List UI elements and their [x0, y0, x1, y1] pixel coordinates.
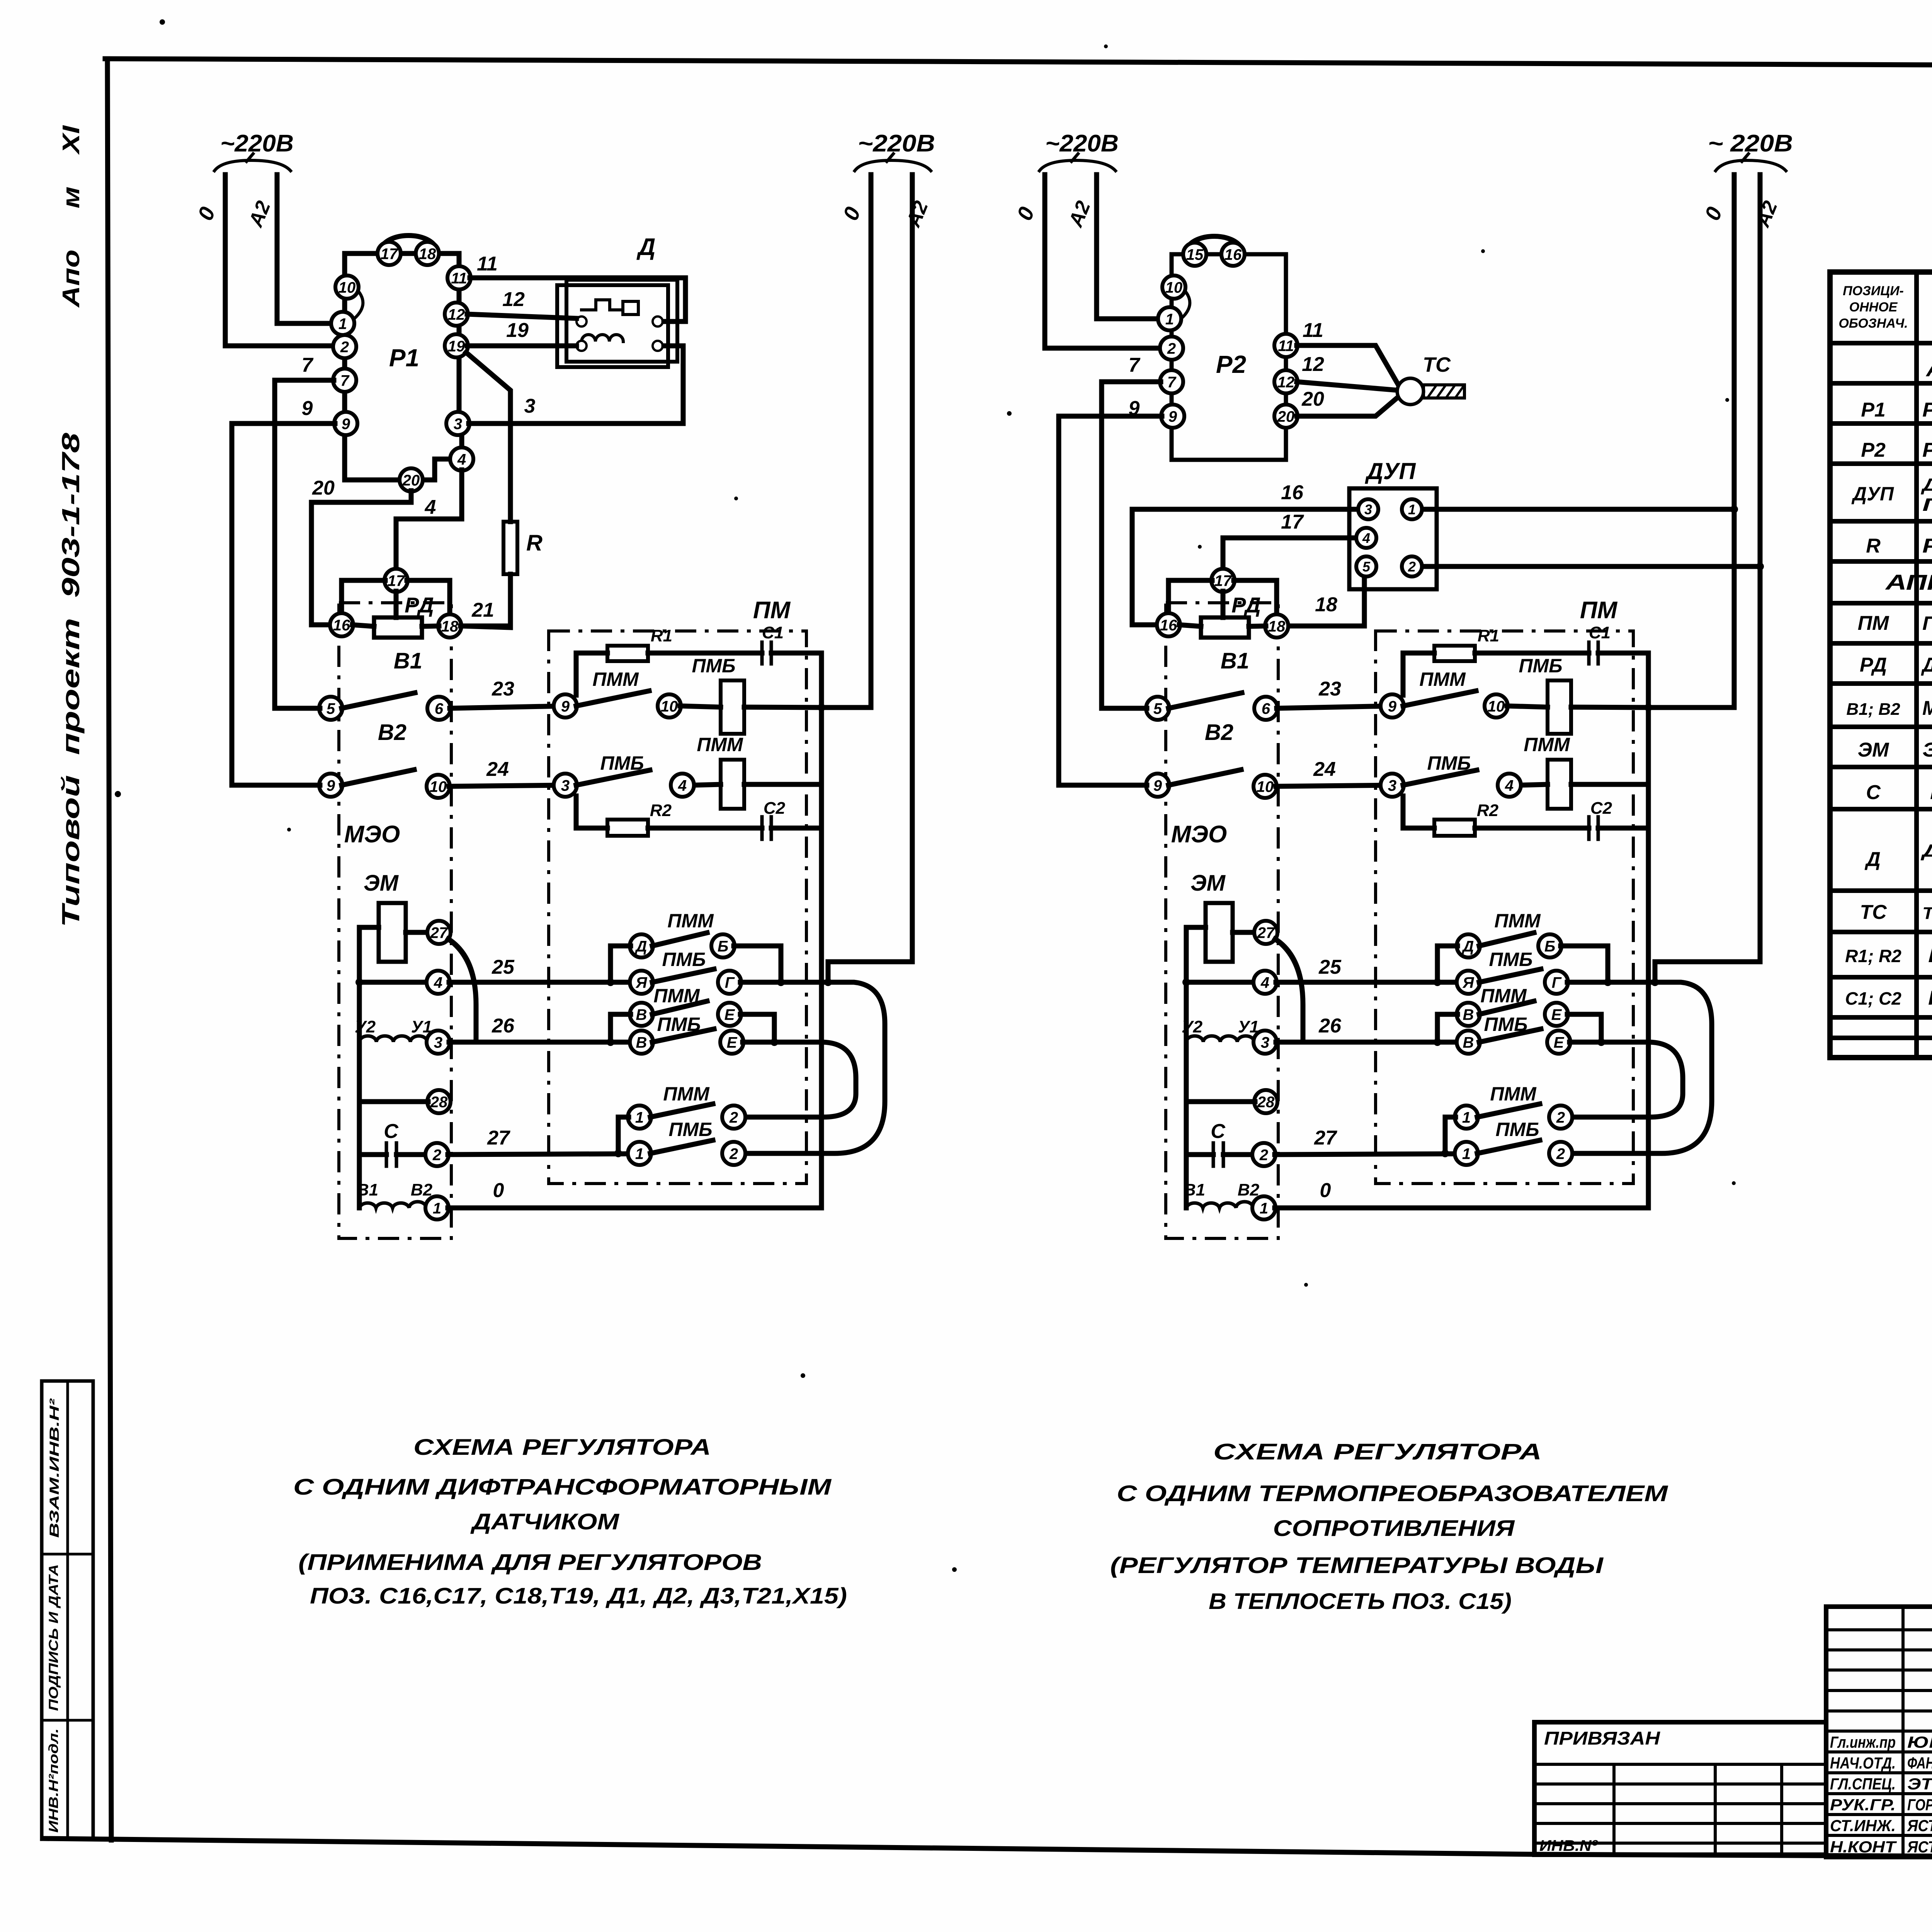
svg-text:2: 2 [1556, 1145, 1565, 1162]
svg-text:4: 4 [434, 974, 442, 991]
row R pos [1866, 535, 1881, 557]
supply label ~220V left reg2 [1045, 130, 1119, 157]
svg-text:~220В: ~220В [220, 130, 294, 157]
wire E upper drop reg2 [1567, 1014, 1601, 1042]
svg-text:Д: Д [635, 938, 647, 955]
contact 9 MEO reg2 [1146, 774, 1169, 797]
label PMB mid contact reg2 [1427, 752, 1471, 774]
svg-text:4: 4 [1505, 777, 1514, 794]
label PMM contact 1-2 reg1 [663, 1083, 710, 1105]
wire label 27 reg2 [1314, 1127, 1337, 1149]
svg-text:Е: Е [724, 1006, 735, 1023]
wire label 3 reg1 [524, 395, 536, 417]
svg-text:20: 20 [402, 472, 420, 489]
caption1 line4 [298, 1550, 762, 1575]
wire 18 reg2 [1287, 577, 1364, 626]
wire to R2 reg2 [1403, 796, 1434, 828]
svg-text:21: 21 [471, 599, 494, 621]
terminal 18 P1 [416, 242, 439, 265]
svg-text:9: 9 [1388, 698, 1397, 715]
blade PMB mid reg2 [1403, 770, 1477, 785]
blade Ya-G reg1 [652, 969, 714, 982]
svg-text:0: 0 [493, 1179, 504, 1202]
svg-text:В1; В2: В1; В2 [1846, 700, 1900, 719]
RD tap wire reg2 [1221, 591, 1226, 617]
svg-text:СХЕМА РЕГУЛЯТОРА: СХЕМА РЕГУЛЯТОРА [413, 1435, 711, 1460]
terminal 2 MEO reg2 [1252, 1143, 1276, 1166]
svg-text:Г: Г [725, 974, 735, 991]
svg-text:3: 3 [434, 1034, 442, 1051]
label B1 winding reg1 [357, 1180, 378, 1199]
wire EM to 27 reg1 [406, 930, 428, 935]
row D pos [1864, 848, 1881, 871]
sensor D terminal bottom-left [577, 341, 587, 351]
terminal 16 RD reg1 [330, 613, 353, 636]
svg-text:В1: В1 [1184, 1180, 1205, 1199]
capacitor C2 reg2 [1589, 817, 1598, 839]
svg-text:В ТЕПЛОСЕТЬ ПОЗ. С15): В ТЕПЛОСЕТЬ ПОЗ. С15) [1209, 1589, 1512, 1614]
wire label 18 reg2 [1315, 594, 1337, 616]
svg-text:В2: В2 [411, 1180, 433, 1199]
svg-text:16: 16 [333, 617, 350, 634]
label TC sensor [1423, 353, 1451, 376]
svg-text:~ 220В: ~ 220В [1708, 130, 1793, 157]
wire label 25 reg1 [492, 956, 515, 978]
svg-text:ПММ: ПММ [1494, 910, 1541, 932]
table section apparatura na shchite [1925, 357, 1932, 381]
svg-text:Р2: Р2 [1216, 350, 1246, 378]
svg-text:ТЕРМОПРЕОБРАЗОВАТЕЛЬ СОПРОТИВЛ: ТЕРМОПРЕОБРАЗОВАТЕЛЬ СОПРОТИВЛЕНИЯ [1922, 904, 1932, 923]
right bus vertical reg2 [1646, 653, 1651, 1208]
svg-text:КОНДЕНСАТОР: КОНДЕНСАТОР [1928, 987, 1932, 1009]
svg-text:9: 9 [1168, 408, 1177, 425]
svg-text:1: 1 [1462, 1109, 1471, 1126]
svg-text:3: 3 [1388, 777, 1396, 794]
riser 27 to 1 row reg1 [614, 1117, 629, 1157]
svg-text:7: 7 [1129, 354, 1141, 376]
svg-text:В1: В1 [394, 648, 422, 673]
terminal 18 RD reg1 [438, 614, 461, 638]
contact E lower reg2 [1547, 1031, 1570, 1054]
wire 10 to PMB coil reg1 [680, 706, 721, 707]
jumper arc 10-1 [353, 291, 363, 320]
svg-text:10: 10 [1488, 698, 1505, 715]
net label 0 left reg2 [1012, 203, 1039, 223]
net label 0 left reg1 [193, 203, 220, 223]
svg-text:18: 18 [419, 245, 436, 262]
svg-text:В: В [636, 1006, 647, 1023]
wire 21 reg1 [461, 624, 510, 629]
label PMM contact D-B reg1 [667, 910, 714, 932]
blade PMM upper reg1 [576, 691, 649, 706]
svg-text:23: 23 [492, 678, 514, 700]
svg-text:20: 20 [312, 477, 335, 499]
terminal 4 MEO reg1 [427, 971, 450, 994]
svg-text:В1: В1 [1221, 648, 1249, 673]
terminal 9 P2 [1161, 405, 1184, 428]
junction 0-supply bus reg2 [1645, 704, 1652, 711]
row C1C2 pos [1845, 988, 1901, 1009]
terminal 9 P1 [334, 412, 357, 435]
row P2 name regulating device P25.21 [1922, 438, 1932, 461]
row P2 pos [1861, 439, 1886, 461]
svg-text:ДУП: ДУП [1364, 458, 1416, 484]
contact E upper reg2 [1545, 1003, 1568, 1026]
svg-text:С1; С2: С1; С2 [1845, 988, 1901, 1009]
wire R2 to C2 reg1 [648, 826, 762, 831]
svg-text:Я: Я [635, 974, 647, 991]
terminal 16 RD reg2 [1157, 613, 1180, 636]
svg-text:Д: Д [1462, 938, 1474, 955]
wire label 4 reg1 [425, 496, 436, 519]
wire left bus reg2 [1184, 1042, 1189, 1208]
label R1 reg2 [1478, 626, 1499, 645]
sensor D winding symbol [582, 335, 623, 342]
label V2 reg1 [378, 720, 406, 745]
row V1V2 pos [1846, 700, 1900, 719]
right bus vertical reg1 [819, 653, 824, 1208]
wire 27 curve to 26 reg1 [448, 939, 476, 1042]
terminal 1 MEO reg2 [1252, 1196, 1276, 1219]
terminal 3 MEO reg1 [427, 1031, 450, 1054]
svg-text:С: С [384, 1120, 399, 1143]
svg-text:19: 19 [506, 319, 529, 342]
outer loop curve reg1 [745, 978, 885, 1153]
contact 9 PM reg1 [554, 694, 577, 718]
table section apparatura po mestu [1884, 570, 1932, 594]
wire 27out reg1 [448, 1154, 629, 1155]
terminal 5 DUP [1356, 556, 1376, 577]
svg-text:РЕГУЛИРУЮЩИЙ ПРИБОР Р25.12~220: РЕГУЛИРУЮЩИЙ ПРИБОР Р25.12~220В [1922, 398, 1932, 421]
svg-text:МИКРОВЫКЛЮЧАТЕЛЬ: МИКРОВЫКЛЮЧАТЕЛЬ [1922, 697, 1932, 719]
svg-text:3: 3 [561, 777, 570, 794]
contact B reg1 [711, 934, 735, 957]
svg-text:ПММ: ПММ [1524, 734, 1570, 755]
terminal 10 P1 [335, 276, 359, 299]
contact V lower reg2 [1457, 1031, 1480, 1054]
svg-text:Р1: Р1 [1861, 399, 1886, 421]
svg-text:12: 12 [502, 288, 525, 311]
svg-text:25: 25 [1318, 956, 1342, 978]
label R1 reg1 [651, 626, 672, 645]
riser 27 to 1 row reg2 [1441, 1117, 1456, 1157]
svg-text:С1: С1 [762, 623, 784, 642]
wire 0 supply left reg1 [225, 175, 333, 346]
wire G bus reg2 [1567, 978, 1655, 986]
row C1C2 name capacitor [1928, 987, 1932, 1009]
switch blade V2 reg2 [1168, 693, 1242, 708]
svg-text:24: 24 [486, 758, 509, 781]
svg-text:17: 17 [388, 572, 405, 589]
svg-text:Типовой проект 903-1-178: Типовой проект 903-1-178 [57, 432, 85, 927]
supply brace right reg1 [855, 154, 931, 171]
svg-text:9: 9 [302, 397, 313, 420]
svg-text:ПМБ: ПМБ [1495, 1119, 1539, 1140]
label P1 [389, 344, 419, 372]
table header pozic.oboznach [1838, 284, 1908, 331]
svg-text:20: 20 [1301, 388, 1324, 410]
label V1 switch reg2 [1221, 648, 1249, 673]
row C name capacitor [1930, 781, 1932, 804]
resistor R [503, 522, 517, 574]
sensor D terminal bottom-right [653, 341, 663, 351]
contact 10 MEO reg1 [427, 775, 450, 798]
terminal 2 DUP [1402, 556, 1422, 577]
blade D-B reg1 [652, 933, 707, 946]
caption2 line5 [1209, 1589, 1512, 1614]
svg-text:ФАНЕРШТЕЙН: ФАНЕРШТЕЙН [1907, 1753, 1932, 1772]
label inv.N title block [1539, 1837, 1599, 1854]
svg-text:ПММ: ПММ [667, 910, 714, 932]
wire 11 reg2 [1297, 345, 1399, 386]
svg-text:R1; R2: R1; R2 [1845, 946, 1901, 966]
wire 0 supply right reg2 [1648, 175, 1734, 707]
svg-text:ЭМ: ЭМ [1190, 871, 1226, 896]
svg-text:20: 20 [1277, 408, 1295, 425]
svg-text:АППАРАТУРА ПО МЕСТУ: АППАРАТУРА ПО МЕСТУ [1884, 570, 1932, 594]
capacitor C1 reg2 [1589, 642, 1598, 664]
svg-text:СОПРОТИВЛЕНИЯ: СОПРОТИВЛЕНИЯ [1273, 1516, 1515, 1541]
caption2 line2 [1117, 1481, 1668, 1506]
microswitch contact 6 reg1 [427, 697, 451, 720]
net label A2 right reg2 [1751, 198, 1782, 231]
parts table grid [1830, 272, 1932, 1058]
svg-text:18: 18 [1315, 594, 1337, 616]
contact 10 PM reg1 [658, 694, 681, 718]
svg-text:ПОЗИЦИ-: ПОЗИЦИ- [1843, 284, 1904, 298]
svg-text:11: 11 [477, 253, 498, 275]
label C2 reg2 [1590, 799, 1612, 818]
svg-text:~220В: ~220В [858, 130, 935, 157]
contact 10 PM reg2 [1485, 694, 1508, 718]
svg-text:R: R [1866, 535, 1881, 557]
net label 0 right reg2 [1700, 203, 1727, 223]
net label A2 left reg2 [1064, 198, 1095, 231]
label PMB contact 1-2 reg2 [1495, 1119, 1539, 1140]
label R2 reg2 [1477, 801, 1499, 820]
contact B reg2 [1538, 934, 1561, 957]
svg-text:11: 11 [1303, 319, 1323, 342]
label PMB contact V-E reg1 [657, 1014, 701, 1035]
svg-text:ПМБ: ПМБ [668, 1119, 712, 1140]
capacitor C1 reg1 [762, 642, 771, 664]
brake winding B1-B2 reg1 [359, 1202, 426, 1208]
wire label 21 reg1 [471, 599, 494, 621]
svg-text:ДАТЧИК РЕОСТАТНЫЙ: ДАТЧИК РЕОСТАТНЫЙ [1921, 653, 1932, 676]
svg-text:ПММ: ПММ [1419, 668, 1466, 690]
border frame bottom line [43, 1838, 1932, 1859]
svg-text:3: 3 [524, 395, 536, 417]
wire RD 16 link reg2 [1179, 625, 1201, 626]
svg-text:ЭТИНГЕН: ЭТИНГЕН [1907, 1775, 1932, 1793]
wire RD 18 link reg1 [422, 626, 439, 626]
terminal 20 P1 [400, 468, 423, 492]
svg-text:СТ.ИНЖ.: СТ.ИНЖ. [1830, 1816, 1896, 1835]
wire label 20 reg1 [312, 477, 335, 499]
label PMB mid contact reg1 [600, 752, 644, 774]
label EM reg1 [364, 871, 399, 896]
label PMM coil reg2 [1524, 734, 1570, 755]
svg-text:4: 4 [425, 496, 436, 519]
supply label ~220V left reg1 [220, 130, 294, 157]
wire to R1 reg1 [576, 653, 607, 695]
terminal 28 reg1 [427, 1090, 451, 1113]
contact G reg1 [718, 971, 741, 994]
resistor R2 reg2 [1434, 820, 1475, 836]
svg-text:28: 28 [430, 1094, 448, 1111]
svg-text:Е: Е [1554, 1034, 1565, 1051]
terminal 28 reg2 [1254, 1090, 1277, 1113]
svg-text:2: 2 [1556, 1109, 1565, 1126]
riser 25 to D row reg2 [1434, 946, 1458, 986]
contact 1 upper reg1 [628, 1105, 651, 1129]
svg-text:10: 10 [1165, 279, 1183, 296]
svg-text:17: 17 [1214, 572, 1232, 589]
wire 3 reg1 [469, 346, 683, 423]
svg-text:ПМ: ПМ [1580, 597, 1618, 624]
svg-text:3: 3 [1261, 1034, 1269, 1051]
contact V upper reg1 [630, 1003, 653, 1026]
blade 1-2 upper reg1 [650, 1104, 713, 1117]
svg-text:24: 24 [1313, 758, 1336, 781]
svg-text:9: 9 [342, 415, 350, 432]
wire B drop reg2 [1561, 946, 1608, 982]
capacitor C MEO reg2 [1213, 1143, 1253, 1166]
svg-text:У2: У2 [355, 1017, 376, 1036]
svg-text:В2: В2 [1205, 720, 1233, 745]
contact 2 lower reg1 [722, 1142, 745, 1165]
wire 25 reg2 [1276, 980, 1458, 985]
svg-text:РД: РД [1860, 654, 1887, 676]
row DUP name line1 [1920, 474, 1932, 495]
caption1 line3 [470, 1509, 620, 1534]
svg-text:1: 1 [1260, 1200, 1268, 1217]
wire E bus curve reg1 [743, 1038, 856, 1117]
wire 11 drop to sensor D [664, 278, 685, 321]
svg-text:Б: Б [718, 938, 728, 955]
wire 19 to resistor R [466, 352, 510, 522]
svg-text:ОННОЕ: ОННОЕ [1849, 300, 1898, 315]
microswitch contact 5 reg2 [1146, 697, 1169, 720]
margin text Apo m XI [58, 125, 85, 308]
supply brace left reg2 [1039, 154, 1116, 171]
wire label 0 bottom reg1 [493, 1179, 504, 1202]
terminal 3 P1 [446, 412, 469, 435]
svg-text:Д: Д [636, 234, 656, 260]
contact 4 PM reg1 [671, 774, 694, 797]
svg-text:В2: В2 [1238, 1180, 1260, 1199]
row R name resistor 2kOm 2Vt [1922, 535, 1932, 557]
wire 4 reg1 [396, 470, 462, 570]
svg-text:2: 2 [729, 1109, 738, 1126]
svg-text:R: R [526, 531, 543, 556]
svg-text:С1: С1 [1589, 623, 1611, 642]
wire label 25 reg2 [1318, 956, 1342, 978]
label R2 reg1 [650, 801, 672, 820]
wire label 11 reg1 [477, 253, 498, 275]
label PMB contact 1-2 reg1 [668, 1119, 712, 1140]
wire 19 reg1 [467, 344, 577, 349]
capacitor C2 reg1 [762, 817, 771, 839]
wire label 19 reg1 [506, 319, 529, 342]
terminal 4 MEO reg2 [1253, 971, 1277, 994]
label PMM coil reg1 [697, 734, 743, 755]
row RD name rheostat sensor [1921, 653, 1932, 676]
svg-text:ЮРТАЕВ: ЮРТАЕВ [1907, 1733, 1932, 1751]
label V2 reg2 [1205, 720, 1233, 745]
svg-text:12: 12 [1302, 353, 1324, 376]
wire capacitor branch reg1 [359, 1152, 386, 1157]
svg-text:В1: В1 [357, 1180, 378, 1199]
svg-text:26: 26 [1318, 1015, 1342, 1037]
svg-text:ВЗАМ.ИНВ.Н²: ВЗАМ.ИНВ.Н² [47, 1398, 62, 1538]
wire 0 supply left reg2 [1045, 175, 1158, 348]
svg-text:ДУП: ДУП [1851, 483, 1894, 505]
contact 2 upper reg2 [1549, 1105, 1572, 1129]
label PMM upper contact reg2 [1419, 668, 1466, 690]
resistor R2 reg1 [607, 820, 648, 836]
caption1 line1 [413, 1435, 711, 1460]
wire 7 feeder reg2 [1102, 382, 1161, 708]
relay coil PMM reg1 [721, 760, 744, 809]
svg-text:11: 11 [451, 270, 467, 287]
margin text Tipovoy proekt 903-1-178 [57, 432, 85, 927]
blade PMB mid reg1 [576, 770, 650, 785]
svg-text:10: 10 [430, 778, 447, 795]
contact Ya reg2 [1457, 971, 1480, 994]
svg-text:1: 1 [635, 1109, 644, 1126]
svg-text:9: 9 [1129, 397, 1140, 420]
wire label 17 reg2 [1281, 511, 1304, 533]
wire label 0 bottom reg2 [1320, 1179, 1331, 1202]
blade D-B reg2 [1479, 933, 1534, 946]
wire label 12 reg2 [1302, 353, 1324, 376]
wire label 12 reg1 [502, 288, 525, 311]
wire A2 supply left reg2 [1097, 175, 1156, 319]
motor winding U2-U1 reg1 [359, 1036, 427, 1042]
svg-text:Апо м XI: Апо м XI [58, 125, 85, 308]
outer loop curve reg2 [1571, 978, 1712, 1153]
svg-text:1: 1 [1462, 1145, 1471, 1162]
wire C2 right reg2 [1598, 826, 1648, 831]
svg-text:ДИСТАНЦИОННЫЙ УКАЗАТЕЛЬ: ДИСТАНЦИОННЫЙ УКАЗАТЕЛЬ [1920, 474, 1932, 495]
microswitch contact 6 reg2 [1254, 697, 1277, 720]
resistor RD reg1 [374, 617, 422, 638]
svg-text:27: 27 [487, 1127, 510, 1149]
contact 4 PM reg2 [1498, 774, 1521, 797]
contact 2 upper reg1 [722, 1105, 745, 1129]
row V1V2 name microswitch [1922, 697, 1932, 719]
svg-text:5: 5 [1153, 700, 1162, 717]
row C pos [1866, 781, 1881, 804]
contact 10 MEO reg2 [1253, 775, 1277, 798]
svg-text:ПММ: ПММ [1490, 1083, 1537, 1105]
svg-text:МЭО: МЭО [344, 821, 400, 848]
terminal 10 P2 [1162, 276, 1185, 299]
jumper arc 10-1 reg2 [1180, 291, 1190, 320]
svg-text:6: 6 [435, 700, 444, 717]
terminal 1 MEO reg1 [425, 1196, 449, 1219]
svg-text:ПРИВЯЗАН: ПРИВЯЗАН [1544, 1728, 1660, 1749]
svg-text:16: 16 [1225, 246, 1242, 263]
wire 0 supply right reg1 [821, 175, 871, 707]
position indicator DUP box [1349, 488, 1437, 589]
label B2 winding reg1 [411, 1180, 433, 1199]
svg-text:В: В [1463, 1006, 1474, 1023]
terminal 18 RD reg2 [1265, 614, 1288, 638]
svg-text:ЯСТРЕБОВА: ЯСТРЕБОВА [1907, 1816, 1932, 1835]
svg-text:17: 17 [381, 245, 398, 262]
